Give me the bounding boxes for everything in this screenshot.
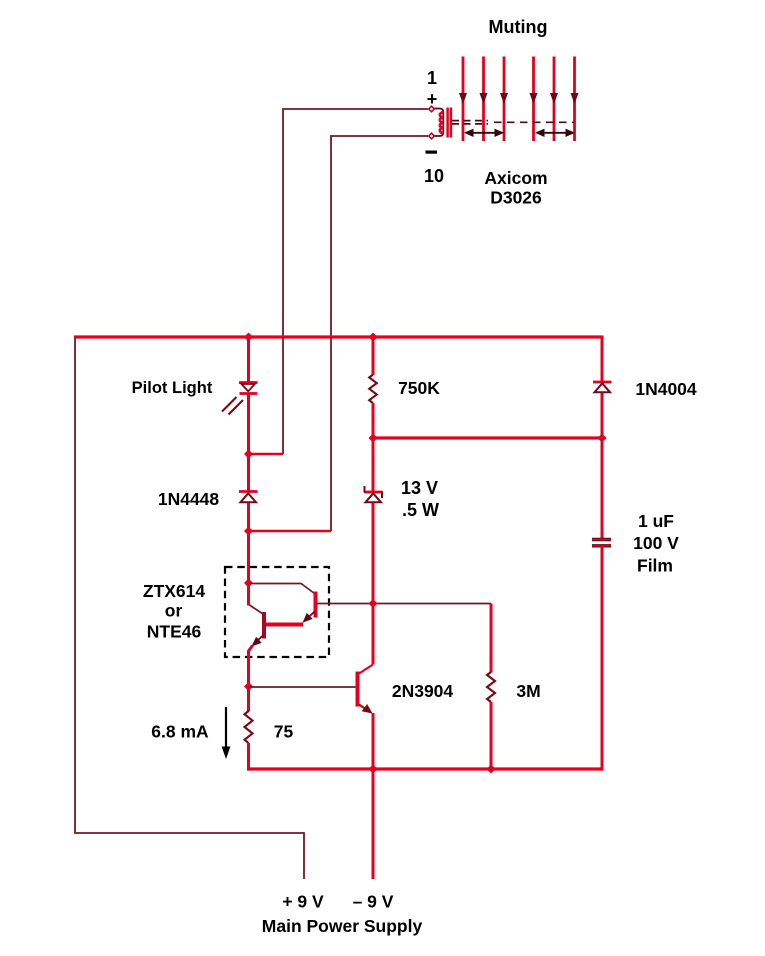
wire zener to 2N3904 collector <box>372 503 375 665</box>
diode 1N4448 <box>239 492 258 503</box>
svg-text:Main Power Supply: Main Power Supply <box>262 916 423 936</box>
LED pilot light D1 <box>239 383 258 394</box>
zener diode 13V <box>364 486 383 502</box>
relay coil terminal - (pin 10) <box>429 133 435 139</box>
svg-text:6.8 mA: 6.8 mA <box>151 722 209 742</box>
relay contact 2 <box>480 57 488 142</box>
svg-text:ZTX614: ZTX614 <box>143 581 206 601</box>
svg-text:or: or <box>165 601 183 621</box>
wire capacitor to bottom bus <box>601 546 604 771</box>
svg-text:+ 9 V: + 9 V <box>282 892 324 912</box>
contact travel arrow right group <box>535 129 575 137</box>
svg-text:Axicom: Axicom <box>484 168 547 188</box>
node collector / output line <box>369 599 378 608</box>
relay contact 4 <box>530 57 538 142</box>
transistor Q2 (darlington input) <box>303 592 316 623</box>
wire pilot branch below LED <box>247 394 250 455</box>
wire right branch upper <box>601 336 604 382</box>
current arrow 6.8 mA <box>222 707 231 759</box>
node emitter / 2N3904 base <box>244 682 253 691</box>
relay contact 5 <box>550 57 558 142</box>
resistor 3M <box>487 672 495 702</box>
label minus <box>426 151 438 154</box>
wire 1N4004 to mid rail <box>601 393 604 438</box>
wire below 1N4448 <box>247 503 250 584</box>
wire top +V bus <box>74 335 602 338</box>
node mid rail right <box>598 434 607 443</box>
svg-text:100 V: 100 V <box>633 533 679 553</box>
wire bottom bus <box>247 767 602 770</box>
node bottom bus / -9V <box>369 765 378 774</box>
wire below resistor 75 <box>247 743 250 771</box>
darlington dashed box <box>225 567 329 657</box>
node darlington collectors <box>244 579 253 588</box>
wire stub to relay + lead <box>247 453 283 456</box>
svg-text:1N4004: 1N4004 <box>635 379 697 399</box>
node bottom bus / 3M <box>487 765 496 774</box>
transistor Q3 2N3904 <box>358 665 374 714</box>
relay actuator dashed link <box>452 121 574 124</box>
svg-text:1: 1 <box>427 68 437 88</box>
svg-text:Pilot Light: Pilot Light <box>132 379 213 397</box>
relay coil K1 <box>434 108 451 138</box>
wire Q2 emitter to Q1 base <box>265 623 303 627</box>
node top bus / pilot branch <box>244 333 253 342</box>
capacitor C1 1uF film <box>592 540 611 546</box>
svg-text:.5 W: .5 W <box>402 500 439 520</box>
resistor 750K <box>369 375 377 404</box>
svg-text:3M: 3M <box>516 681 540 701</box>
svg-text:10: 10 <box>424 166 444 186</box>
node mid rail left <box>369 434 378 443</box>
LED light rays <box>222 397 243 415</box>
wire below 750K <box>372 403 375 438</box>
svg-text:Muting: Muting <box>489 17 548 37</box>
wire 750K branch upper <box>372 337 375 375</box>
wire stub to relay - lead <box>247 530 331 533</box>
wire mid rail to capacitor <box>601 438 604 539</box>
wire relay - lead to 1N4448 node <box>331 136 428 531</box>
wire 2N3904 base lead <box>249 686 357 688</box>
wire 3M branch upper <box>490 604 493 673</box>
relay contact 6 <box>571 57 579 142</box>
svg-text:D3026: D3026 <box>490 188 542 208</box>
node 1N4448 / relay - <box>244 527 253 536</box>
wire darlington output to 3M <box>317 603 491 605</box>
wire mid rail <box>373 436 602 439</box>
svg-text:NTE46: NTE46 <box>147 622 202 642</box>
svg-text:Film: Film <box>637 556 673 576</box>
svg-text:75: 75 <box>274 722 294 742</box>
wire Q1 emitter down <box>249 646 253 688</box>
svg-text:2N3904: 2N3904 <box>392 681 454 701</box>
svg-text:– 9 V: – 9 V <box>353 892 394 912</box>
contact travel arrow left group <box>464 129 504 137</box>
node pilot / relay + <box>244 450 253 459</box>
node top bus / 750K branch <box>369 333 378 342</box>
svg-text:750K: 750K <box>398 378 440 398</box>
relay coil terminal + (pin 1) <box>429 106 435 112</box>
wire relay + lead to pilot branch <box>283 109 428 454</box>
svg-text:+: + <box>427 89 438 109</box>
wire to 1N4448 <box>247 454 250 491</box>
relay contact 1 <box>459 57 467 142</box>
svg-text:1N4448: 1N4448 <box>158 489 220 509</box>
wire Q1 collector stub <box>247 583 250 606</box>
wire -9V lead <box>372 769 375 879</box>
wire to zener <box>372 438 375 491</box>
wire above resistor 75 <box>247 687 250 712</box>
relay contact 3 <box>500 57 508 142</box>
transistor Q1 (darlington output) <box>250 605 265 647</box>
wire Q2 collector link <box>250 584 315 594</box>
svg-text:13 V: 13 V <box>401 478 438 498</box>
wire 3M branch lower <box>490 702 493 770</box>
wire left +9V feed <box>75 338 304 879</box>
wire 2N3904 emitter down <box>372 713 375 770</box>
diode 1N4004 <box>593 382 612 392</box>
wire pilot branch upper <box>247 337 250 382</box>
resistor 75 <box>245 711 253 743</box>
svg-text:1 uF: 1 uF <box>638 511 674 531</box>
